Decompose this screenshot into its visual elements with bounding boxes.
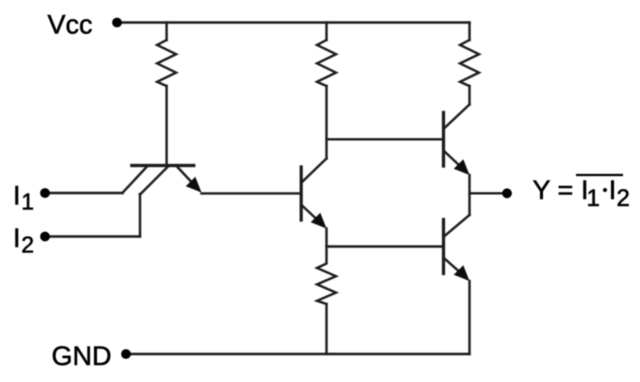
transistor Q1 (multi-emitter input) bbox=[123, 166, 202, 195]
wire output to Y bbox=[470, 192, 508, 194]
label Y = I1·I2 with overbar bbox=[533, 175, 630, 212]
svg-text:1: 1 bbox=[587, 185, 600, 212]
svg-text:1: 1 bbox=[21, 189, 34, 215]
svg-text:GND: GND bbox=[52, 341, 112, 371]
wire I2 riser to Q1 emitter bbox=[139, 194, 141, 237]
node output Y terminal dot bbox=[502, 188, 512, 198]
svg-text:I: I bbox=[13, 223, 21, 253]
resistor R2 bbox=[317, 23, 336, 159]
wire Q4 collector diagonal bbox=[445, 215, 470, 236]
transistor Q4 (bottom output) bbox=[444, 220, 470, 282]
node I2 terminal dot bbox=[40, 232, 50, 242]
wire input I1 bbox=[45, 192, 123, 194]
svg-text:I: I bbox=[13, 181, 21, 211]
node I1 terminal dot bbox=[40, 188, 50, 198]
svg-text:I: I bbox=[609, 175, 617, 205]
svg-text:2: 2 bbox=[617, 185, 630, 212]
wire GND bottom rail bbox=[126, 353, 470, 355]
transistor Q2 (phase splitter) bbox=[301, 159, 326, 229]
resistor R1 bbox=[157, 23, 176, 165]
wire Q2 emitter down to R4 bbox=[325, 229, 327, 263]
svg-text:Vcc: Vcc bbox=[48, 10, 93, 40]
node GND terminal dot bbox=[121, 349, 131, 359]
wire Q4 emitter to GND bbox=[468, 281, 470, 354]
wire input I2 bbox=[45, 235, 140, 237]
svg-text:=: = bbox=[558, 175, 574, 205]
middot in formula bbox=[603, 188, 607, 192]
transistor Q3 (top output) bbox=[444, 105, 470, 176]
svg-text:Y: Y bbox=[533, 175, 551, 205]
resistor R4 bbox=[317, 264, 336, 355]
svg-text:2: 2 bbox=[21, 232, 34, 258]
wire Q3 emitter / output node / Q4 collector bbox=[468, 175, 470, 215]
resistor R3 bbox=[460, 23, 479, 105]
wire Q1 collector to Q2 base bbox=[202, 192, 301, 194]
label I1 bbox=[13, 181, 34, 215]
label I2 bbox=[13, 223, 34, 258]
wire Vcc top rail bbox=[117, 21, 470, 23]
node Vcc terminal dot bbox=[112, 18, 122, 28]
wire Q2 collector node to Q3 base bbox=[327, 138, 443, 140]
wire Q2 emitter node to Q4 base bbox=[327, 245, 443, 247]
